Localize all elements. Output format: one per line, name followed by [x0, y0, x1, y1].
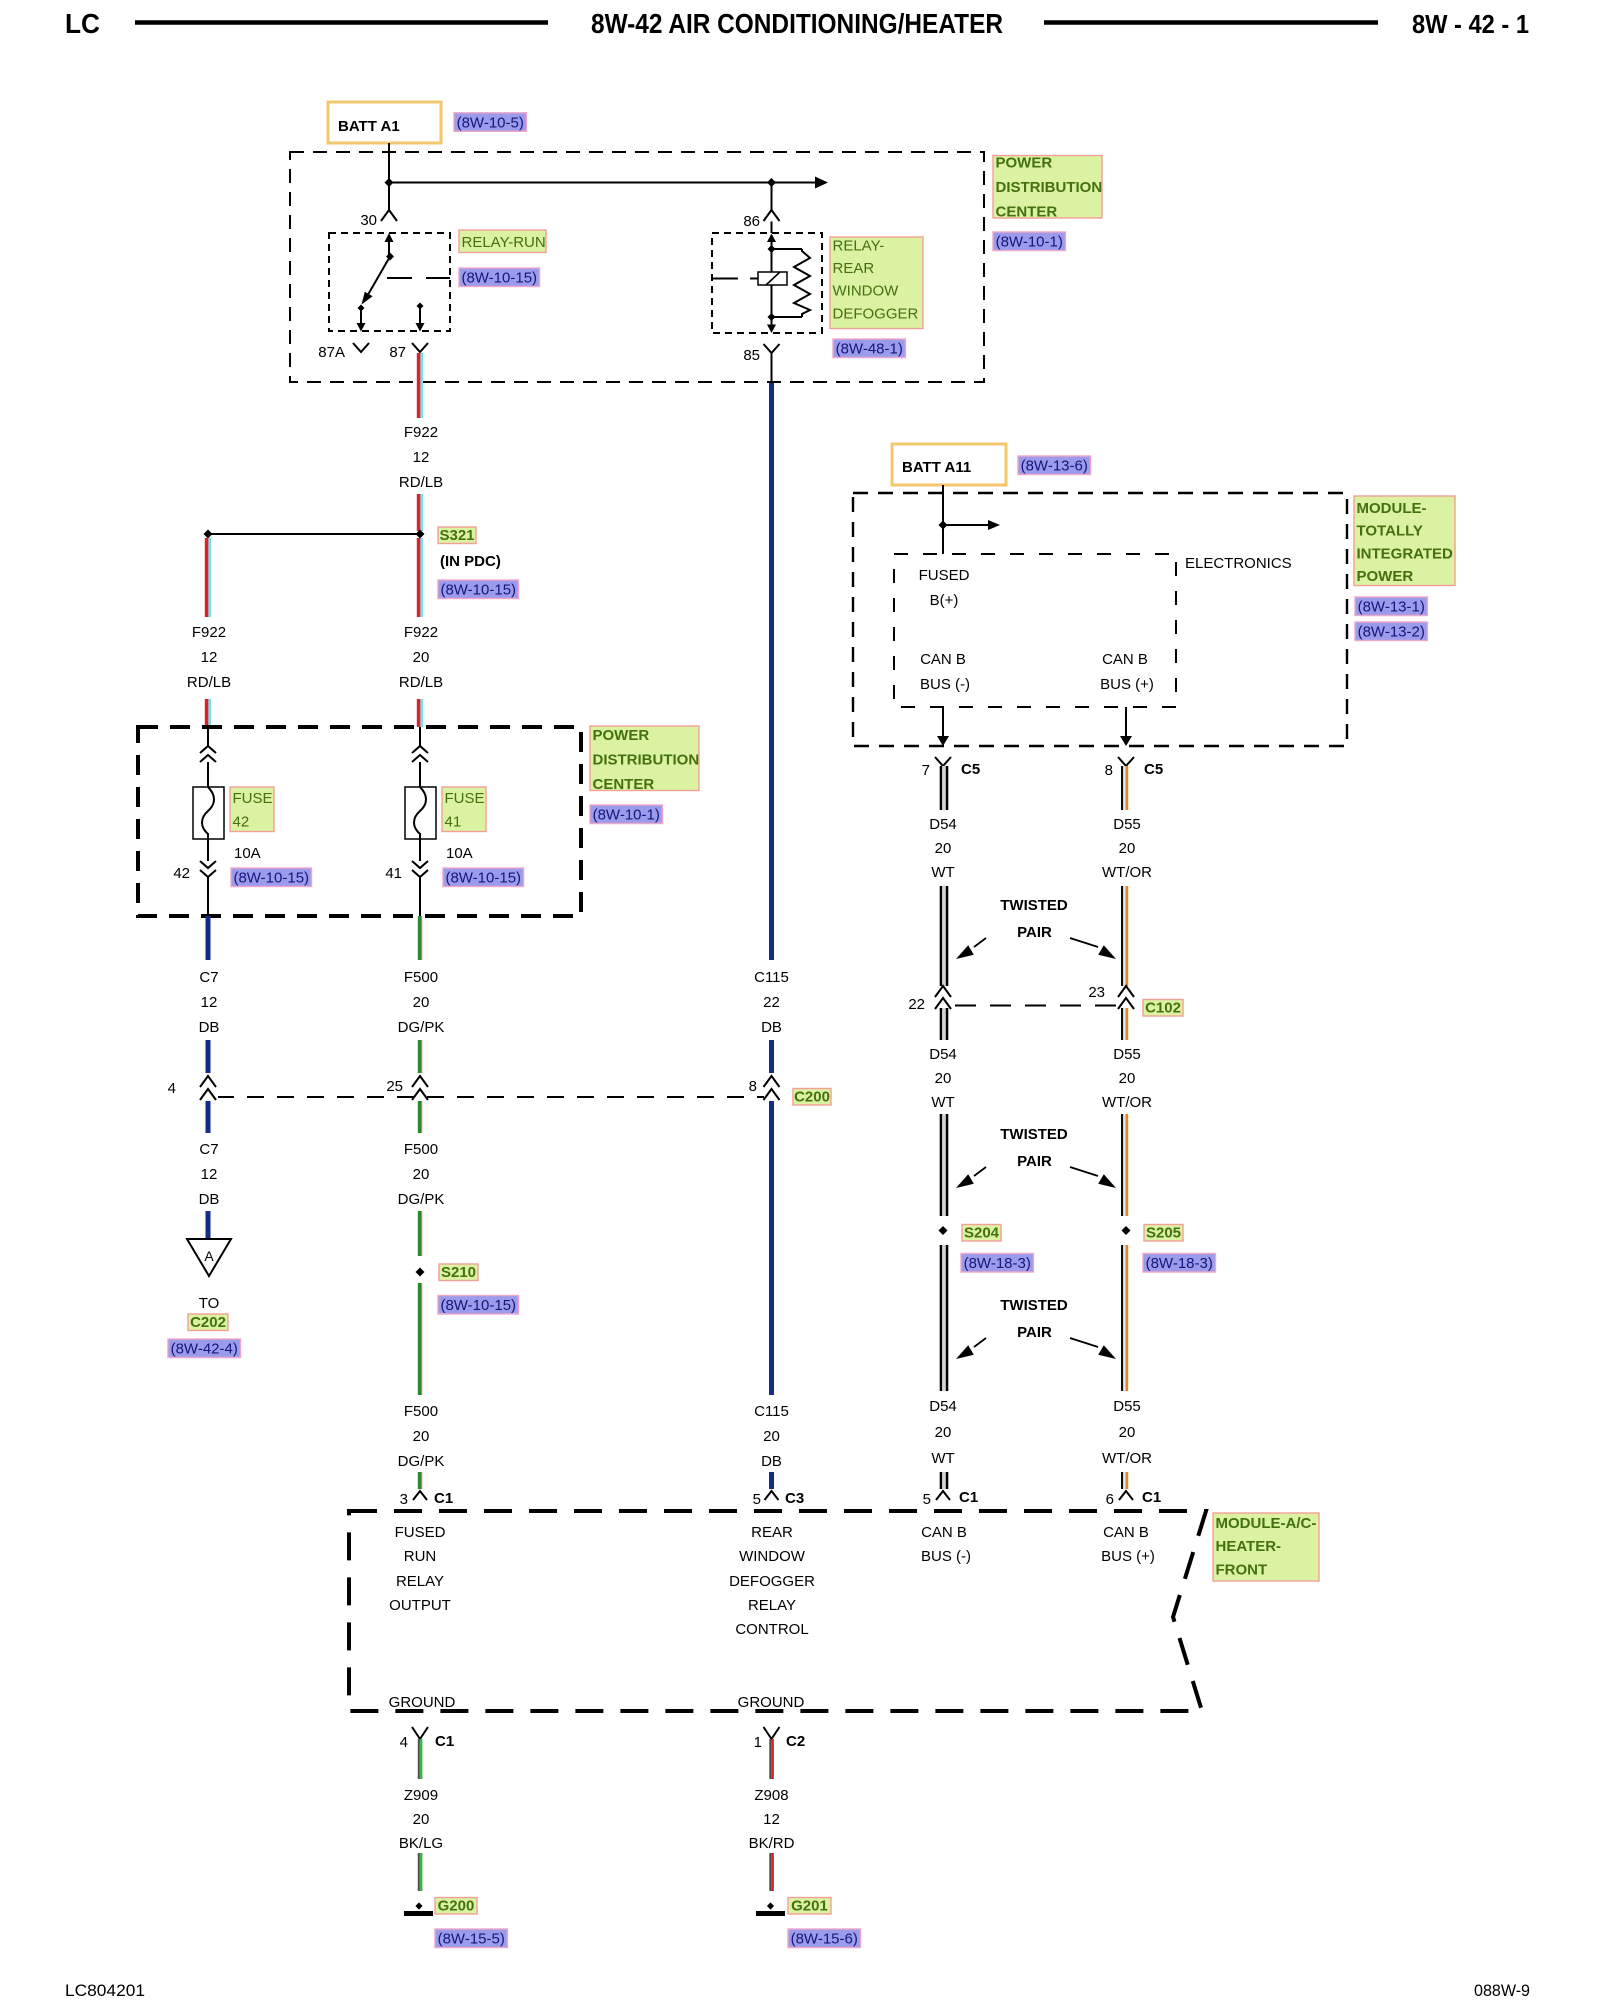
svg-text:(8W-15-6): (8W-15-6) [791, 1931, 858, 1948]
reference (8W-10-15) S321 [438, 580, 519, 599]
svg-text:WT/OR: WT/OR [1102, 1094, 1152, 1111]
svg-text:(8W-13-6): (8W-13-6) [1021, 458, 1088, 475]
svg-text:8W - 42 - 1: 8W - 42 - 1 [1412, 9, 1529, 39]
svg-text:(8W-13-2): (8W-13-2) [1358, 624, 1425, 641]
svg-text:8W-42 AIR CONDITIONING/HEATER: 8W-42 AIR CONDITIONING/HEATER [591, 8, 1003, 39]
wire F500 below S210 [418, 1283, 422, 1395]
svg-text:20: 20 [413, 649, 430, 666]
fuse 42 output connector chevrons [200, 861, 216, 868]
connector C102 pin 23 chevrons [1118, 986, 1134, 997]
svg-text:F500: F500 [404, 1403, 438, 1420]
svg-text:F922: F922 [404, 424, 438, 441]
wire F922 20 into PDC [417, 699, 421, 727]
fuse 41 input connector chevrons [412, 746, 428, 753]
module pin 4 chevron out [412, 1727, 428, 1739]
svg-text:1: 1 [754, 1734, 762, 1751]
wire D54 WT segment 5 [940, 1245, 943, 1391]
connector C5 pin 7 chevron [935, 757, 951, 766]
power distribution center dashed box (fuses) [138, 727, 581, 916]
svg-text:POWER: POWER [996, 155, 1053, 172]
svg-text:BUS (-): BUS (-) [921, 1548, 971, 1565]
svg-text:6: 6 [1106, 1491, 1114, 1508]
svg-text:LC: LC [65, 8, 100, 39]
reference (8W-15-5) [435, 1929, 507, 1948]
svg-text:20: 20 [1119, 840, 1136, 857]
reference (8W-18-3) S205 [1143, 1254, 1215, 1273]
svg-text:BK/LG: BK/LG [399, 1835, 443, 1852]
svg-text:DB: DB [199, 1019, 220, 1036]
wire F922 20 right branch [417, 538, 421, 617]
svg-text:D54: D54 [929, 1046, 957, 1063]
relay-run pin 87A arrow to box edge [360, 308, 362, 324]
reference (8W-10-15) S210 [438, 1296, 519, 1315]
svg-text:WT: WT [931, 864, 954, 881]
wire F500 segment 1 [418, 916, 422, 960]
svg-text:C5: C5 [1144, 761, 1163, 778]
label RELAY-RUN [459, 230, 546, 253]
wire C115 below C200 [769, 1101, 774, 1395]
svg-text:25: 25 [386, 1078, 403, 1095]
relay-rear-window-defogger dashed box [712, 233, 822, 333]
svg-text:CENTER: CENTER [996, 203, 1058, 220]
label POWER DISTRIBUTION CENTER (top) [993, 156, 1102, 219]
svg-text:S204: S204 [964, 1225, 1000, 1242]
connector C200 pin 4 chevrons [200, 1076, 216, 1087]
module pin 6 chevron (C1) [1119, 1491, 1133, 1500]
svg-text:WT/OR: WT/OR [1102, 864, 1152, 881]
wire battery feed horizontal [389, 182, 815, 184]
wire D54 WT segment 3 [940, 1008, 943, 1040]
wire F500 stub to module [418, 1472, 422, 1489]
svg-text:8: 8 [1105, 762, 1113, 779]
reference (8W-10-5) [454, 113, 526, 132]
svg-text:10A: 10A [234, 845, 261, 862]
wire BATT A1 down to feed node [388, 143, 390, 183]
reference (8W-13-1) [1355, 597, 1427, 616]
svg-text:PAIR: PAIR [1017, 1324, 1052, 1341]
tag C102 [1143, 1000, 1183, 1017]
wire C115 22 DB [769, 383, 774, 960]
wire F922 12 into PDC [205, 699, 209, 727]
svg-text:TO: TO [199, 1295, 220, 1312]
svg-text:CONTROL: CONTROL [735, 1621, 808, 1638]
svg-text:5: 5 [923, 1491, 931, 1508]
svg-text:C202: C202 [190, 1314, 226, 1331]
svg-text:20: 20 [1119, 1424, 1136, 1441]
connector C200 pin 8 chevrons [764, 1076, 780, 1087]
svg-text:BATT A11: BATT A11 [902, 459, 971, 476]
wire Z908 segment 2 [769, 1853, 771, 1891]
svg-text:POWER: POWER [593, 727, 650, 744]
svg-text:(8W-48-1): (8W-48-1) [836, 341, 903, 358]
svg-text:(IN PDC): (IN PDC) [440, 553, 501, 570]
svg-text:INTEGRATED: INTEGRATED [1357, 545, 1454, 562]
fuse 41 output connector chevrons [412, 861, 428, 868]
svg-text:WT: WT [931, 1450, 954, 1467]
svg-text:FRONT: FRONT [1216, 1561, 1268, 1578]
svg-text:41: 41 [445, 814, 462, 831]
svg-text:20: 20 [935, 1070, 952, 1087]
tag S321 [438, 527, 476, 544]
svg-text:DB: DB [199, 1191, 220, 1208]
svg-text:TWISTED: TWISTED [1000, 897, 1068, 914]
node splice S204 [939, 1226, 948, 1235]
suppression resistor zigzag [794, 249, 810, 317]
svg-text:BK/RD: BK/RD [749, 1835, 795, 1852]
svg-text:(8W-10-5): (8W-10-5) [457, 114, 524, 131]
svg-text:12: 12 [763, 1811, 780, 1828]
svg-text:D54: D54 [929, 816, 957, 833]
wire F922 from pin 87 (upper) [417, 353, 421, 418]
svg-text:HEATER-: HEATER- [1216, 1538, 1282, 1555]
svg-text:10A: 10A [446, 845, 473, 862]
wire Z909 segment 1 [418, 1739, 420, 1779]
wire C7 below C200 [206, 1101, 211, 1133]
svg-text:DEFOGGER: DEFOGGER [729, 1573, 815, 1590]
svg-text:12: 12 [201, 994, 218, 1011]
wire F500 below C200 [418, 1101, 422, 1133]
svg-text:ELECTRONICS: ELECTRONICS [1185, 555, 1292, 572]
tag S205 [1144, 1225, 1183, 1242]
module pin 5 chevron (C1) [936, 1491, 950, 1500]
reference (8W-10-15) fuse 42 [231, 868, 312, 887]
svg-text:F500: F500 [404, 969, 438, 986]
svg-text:A: A [204, 1248, 214, 1264]
svg-text:DG/PK: DG/PK [398, 1191, 445, 1208]
reference (8W-13-6) [1018, 456, 1090, 475]
TIPM CAN+ output arrow [1125, 707, 1127, 738]
svg-text:20: 20 [935, 1424, 952, 1441]
wire pin 86 chevron to box [771, 222, 773, 234]
svg-text:CAN B: CAN B [921, 1524, 967, 1541]
svg-text:7: 7 [922, 762, 930, 779]
battery feed box BATT A11 [892, 444, 1006, 485]
svg-text:C1: C1 [434, 1490, 453, 1507]
fuse 42 wire to box edge [207, 877, 209, 916]
svg-text:23: 23 [1088, 984, 1105, 1001]
pin 86 connector chevron [764, 210, 780, 221]
svg-text:S321: S321 [439, 527, 474, 544]
reference (8W-10-1) fuses [590, 805, 662, 824]
svg-text:(8W-10-1): (8W-10-1) [593, 807, 660, 824]
wire C115 stub to module [769, 1472, 774, 1489]
wire D55 WT/OR segment 3 [1121, 1008, 1123, 1040]
svg-text:TWISTED: TWISTED [1000, 1297, 1068, 1314]
module TIPM outer dashed box [853, 493, 1347, 746]
svg-text:(8W-13-1): (8W-13-1) [1358, 599, 1425, 616]
wire feed down to pin 86 [771, 183, 773, 211]
svg-text:F922: F922 [192, 624, 226, 641]
wire D55 stub to module [1121, 1472, 1123, 1489]
wire D54 WT segment 4 [940, 1114, 943, 1216]
wire F922 to splice S321 [417, 494, 421, 531]
svg-text:(8W-42-4): (8W-42-4) [171, 1341, 238, 1358]
label FUSE 42 [230, 787, 274, 832]
svg-text:S205: S205 [1146, 1225, 1181, 1242]
node defogger coil bottom [768, 313, 776, 321]
wire coil bottom lead [771, 285, 773, 317]
fuse 42 body [193, 787, 224, 839]
svg-text:FUSED: FUSED [919, 567, 970, 584]
svg-text:20: 20 [413, 994, 430, 1011]
wire D55 WT/OR segment 2 [1121, 886, 1123, 986]
svg-text:REAR: REAR [833, 260, 875, 277]
svg-text:CAN B: CAN B [1103, 1524, 1149, 1541]
svg-text:GROUND: GROUND [389, 1694, 456, 1711]
svg-text:20: 20 [935, 840, 952, 857]
node splice S210 [416, 1268, 425, 1277]
reference (8W-10-15) fuse 41 [443, 868, 524, 887]
svg-text:CENTER: CENTER [593, 776, 655, 793]
svg-text:RD/LB: RD/LB [399, 474, 443, 491]
defogger pin 86 arrow into box [771, 241, 773, 249]
svg-text:42: 42 [233, 814, 250, 831]
svg-text:PAIR: PAIR [1017, 1153, 1052, 1170]
connector C200 pin 25 chevrons [412, 1076, 428, 1087]
svg-text:5: 5 [753, 1491, 761, 1508]
svg-text:RELAY: RELAY [748, 1597, 796, 1614]
svg-text:DG/PK: DG/PK [398, 1019, 445, 1036]
wire pin 85 black stub [771, 353, 773, 383]
svg-text:F500: F500 [404, 1141, 438, 1158]
svg-text:MODULE-: MODULE- [1357, 500, 1427, 517]
pin 85 connector chevron [764, 344, 780, 353]
label FUSE 41 [442, 787, 486, 832]
svg-text:DB: DB [761, 1019, 782, 1036]
connector C102 pin 22 chevrons [935, 986, 951, 997]
svg-text:4: 4 [400, 1734, 408, 1751]
svg-text:(8W-18-3): (8W-18-3) [964, 1255, 1031, 1272]
pin 87A connector chevron [353, 343, 369, 352]
svg-text:CAN B: CAN B [920, 651, 966, 668]
power distribution center dashed box (top) [290, 152, 984, 382]
svg-text:WT: WT [931, 1094, 954, 1111]
module pin 1 chevron out [764, 1727, 780, 1739]
svg-text:41: 41 [385, 865, 402, 882]
relay-run switch pivot [386, 253, 394, 261]
svg-text:BUS (-): BUS (-) [920, 676, 970, 693]
wire Z908 segment 1 [769, 1739, 771, 1779]
svg-text:C200: C200 [794, 1089, 830, 1106]
svg-text:WINDOW: WINDOW [739, 1548, 806, 1565]
svg-text:C1: C1 [435, 1733, 454, 1750]
svg-text:FUSE: FUSE [445, 790, 485, 807]
svg-text:S210: S210 [441, 1264, 476, 1281]
svg-text:WINDOW: WINDOW [833, 283, 900, 300]
svg-text:WT/OR: WT/OR [1102, 1450, 1152, 1467]
svg-text:3: 3 [400, 1491, 408, 1508]
svg-text:C2: C2 [786, 1733, 805, 1750]
svg-text:G200: G200 [438, 1898, 475, 1915]
svg-text:088W-9: 088W-9 [1474, 1981, 1530, 2000]
wire C115 to C200 [769, 1040, 774, 1073]
wire F500 to splice S210 [418, 1211, 422, 1256]
svg-text:87A: 87A [318, 344, 345, 361]
svg-text:C7: C7 [199, 1141, 218, 1158]
wire C7 12 DB segment 1 [206, 916, 211, 960]
off-page connector triangle A [187, 1239, 231, 1276]
fuse 42 output wire [207, 839, 209, 861]
svg-text:86: 86 [743, 213, 760, 230]
svg-text:20: 20 [413, 1166, 430, 1183]
label POWER DISTRIBUTION CENTER (fuses) [590, 726, 699, 791]
svg-text:(8W-10-15): (8W-10-15) [440, 1297, 516, 1314]
svg-text:22: 22 [763, 994, 780, 1011]
svg-text:(8W-10-15): (8W-10-15) [461, 270, 537, 287]
relay-run pin 87 arrow to box edge [419, 306, 421, 324]
svg-text:12: 12 [201, 1166, 218, 1183]
svg-text:(8W-10-1): (8W-10-1) [996, 234, 1063, 251]
reference (8W-18-3) S204 [961, 1254, 1033, 1273]
svg-text:D55: D55 [1113, 1046, 1141, 1063]
svg-text:C102: C102 [1145, 1000, 1181, 1017]
svg-text:TWISTED: TWISTED [1000, 1126, 1068, 1143]
pin 87 connector chevron [412, 343, 428, 352]
svg-text:87: 87 [389, 344, 406, 361]
reference (8W-48-1) [833, 339, 905, 358]
svg-text:FUSED: FUSED [395, 1524, 446, 1541]
node TIPM feed junction [939, 521, 948, 530]
relay-run dashed box [329, 233, 450, 331]
node splice S205 [1122, 1226, 1131, 1235]
svg-text:8: 8 [749, 1078, 757, 1095]
relay-run pin 30 arrow into box [388, 241, 390, 257]
svg-text:Z909: Z909 [404, 1787, 438, 1804]
svg-text:30: 30 [360, 212, 377, 229]
svg-text:22: 22 [908, 996, 925, 1013]
svg-text:PAIR: PAIR [1017, 924, 1052, 941]
svg-text:D55: D55 [1113, 816, 1141, 833]
header rule right [1044, 20, 1378, 25]
node arm tip 87A [358, 305, 365, 312]
svg-text:DISTRIBUTION: DISTRIBUTION [996, 179, 1103, 196]
node defogger coil top [768, 245, 776, 253]
svg-text:BUS (+): BUS (+) [1100, 676, 1154, 693]
svg-text:REAR: REAR [751, 1524, 793, 1541]
wire D55 WT/OR segment 1 [1121, 766, 1123, 810]
svg-text:RELAY-: RELAY- [833, 238, 885, 255]
fuse 41 output wire [419, 839, 421, 861]
svg-text:C115: C115 [754, 1403, 789, 1420]
svg-text:Z908: Z908 [754, 1787, 788, 1804]
TIPM inner electronics dashed box [894, 554, 1176, 707]
wire D54 WT segment 1 [940, 766, 943, 810]
svg-text:F922: F922 [404, 624, 438, 641]
relay-run switch arm [366, 257, 391, 300]
connector C102 dashed line [955, 1005, 1116, 1007]
svg-text:12: 12 [413, 449, 430, 466]
module pin 5 chevron (C3) [765, 1491, 779, 1500]
module A/C-heater dashed box [349, 1511, 1206, 1711]
wire D55 WT/OR segment 5 [1121, 1245, 1123, 1391]
battery feed box BATT A1 [328, 102, 441, 143]
svg-text:RELAY: RELAY [396, 1573, 444, 1590]
wire F922 12 left branch [205, 538, 209, 617]
node pin 87 stem [417, 303, 424, 310]
reference (8W-10-1) top [993, 232, 1065, 251]
svg-text:TOTALLY: TOTALLY [1357, 523, 1423, 540]
wire C7 to C200 [206, 1040, 211, 1073]
svg-text:20: 20 [413, 1811, 430, 1828]
defogger pin 85 arrow to box edge [771, 317, 773, 325]
wire F500 to C200 [418, 1040, 422, 1073]
tag G200 [435, 1898, 477, 1915]
splice S321 crossbar [208, 533, 420, 535]
label MODULE-TOTALLY INTEGRATED POWER [1354, 496, 1455, 586]
relay coil K1 [758, 272, 787, 285]
svg-text:C7: C7 [199, 969, 218, 986]
coil control lead from box edge [712, 278, 738, 280]
svg-text:4: 4 [168, 1080, 176, 1097]
svg-text:DB: DB [761, 1453, 782, 1470]
svg-text:C1: C1 [1142, 1489, 1161, 1506]
svg-text:BATT A1: BATT A1 [338, 118, 400, 135]
wire from resistor bottom [772, 316, 803, 318]
svg-text:CAN B: CAN B [1102, 651, 1148, 668]
wire D55 WT/OR segment 4 [1121, 1114, 1123, 1216]
svg-text:DISTRIBUTION: DISTRIBUTION [593, 751, 700, 768]
module pin 3 chevron [413, 1491, 427, 1500]
connector C200 dashed line [218, 1096, 764, 1098]
svg-text:B(+): B(+) [930, 592, 959, 609]
svg-text:20: 20 [763, 1428, 780, 1445]
ground G200 symbol [415, 1902, 422, 1909]
connector C5 pin 8 chevron [1118, 757, 1134, 766]
svg-text:LC804201: LC804201 [65, 1981, 145, 2000]
wire to suppression resistor top [772, 248, 803, 250]
svg-text:FUSE: FUSE [233, 790, 273, 807]
svg-text:DEFOGGER: DEFOGGER [833, 305, 919, 322]
wire D54 stub to module [940, 1472, 943, 1489]
TIPM CAN- output arrow [942, 707, 944, 738]
svg-text:(8W-10-15): (8W-10-15) [445, 870, 521, 887]
fuse 41 body [405, 787, 436, 839]
tag G201 [788, 1898, 831, 1915]
reference (8W-10-15) relay-run [459, 268, 540, 287]
svg-text:G201: G201 [791, 1898, 828, 1915]
svg-text:D55: D55 [1113, 1398, 1141, 1415]
svg-text:C3: C3 [785, 1490, 804, 1507]
svg-text:(8W-10-15): (8W-10-15) [440, 582, 516, 599]
svg-text:42: 42 [173, 865, 190, 882]
node tap to relay pin 86 [767, 178, 776, 187]
reference (8W-42-4) [168, 1339, 240, 1358]
svg-text:BUS (+): BUS (+) [1101, 1548, 1155, 1565]
svg-text:(8W-10-15): (8W-10-15) [233, 870, 309, 887]
header rule left [135, 20, 548, 25]
svg-text:(8W-15-5): (8W-15-5) [438, 1931, 505, 1948]
svg-text:20: 20 [413, 1428, 430, 1445]
tag S204 [962, 1225, 1001, 1242]
svg-text:RD/LB: RD/LB [187, 674, 231, 691]
relay-run movable contact dashes [387, 277, 412, 279]
svg-text:12: 12 [201, 649, 218, 666]
label MODULE-A/C-HEATER-FRONT [1213, 1513, 1319, 1581]
node S321 right [416, 530, 425, 539]
svg-text:RD/LB: RD/LB [399, 674, 443, 691]
svg-text:MODULE-A/C-: MODULE-A/C- [1216, 1515, 1317, 1532]
wire Z909 segment 2 [418, 1853, 420, 1891]
fuse 42 input connector chevrons [200, 746, 216, 753]
wire feed to pin 30 [388, 183, 390, 211]
arrowhead feed continues right [815, 177, 828, 189]
node battery feed junction [385, 178, 394, 187]
arrow TIPM feed continues [943, 524, 988, 526]
svg-text:DG/PK: DG/PK [398, 1453, 445, 1470]
svg-text:C5: C5 [961, 761, 980, 778]
svg-text:RELAY-RUN: RELAY-RUN [462, 234, 546, 251]
wire coil top lead [771, 249, 773, 272]
